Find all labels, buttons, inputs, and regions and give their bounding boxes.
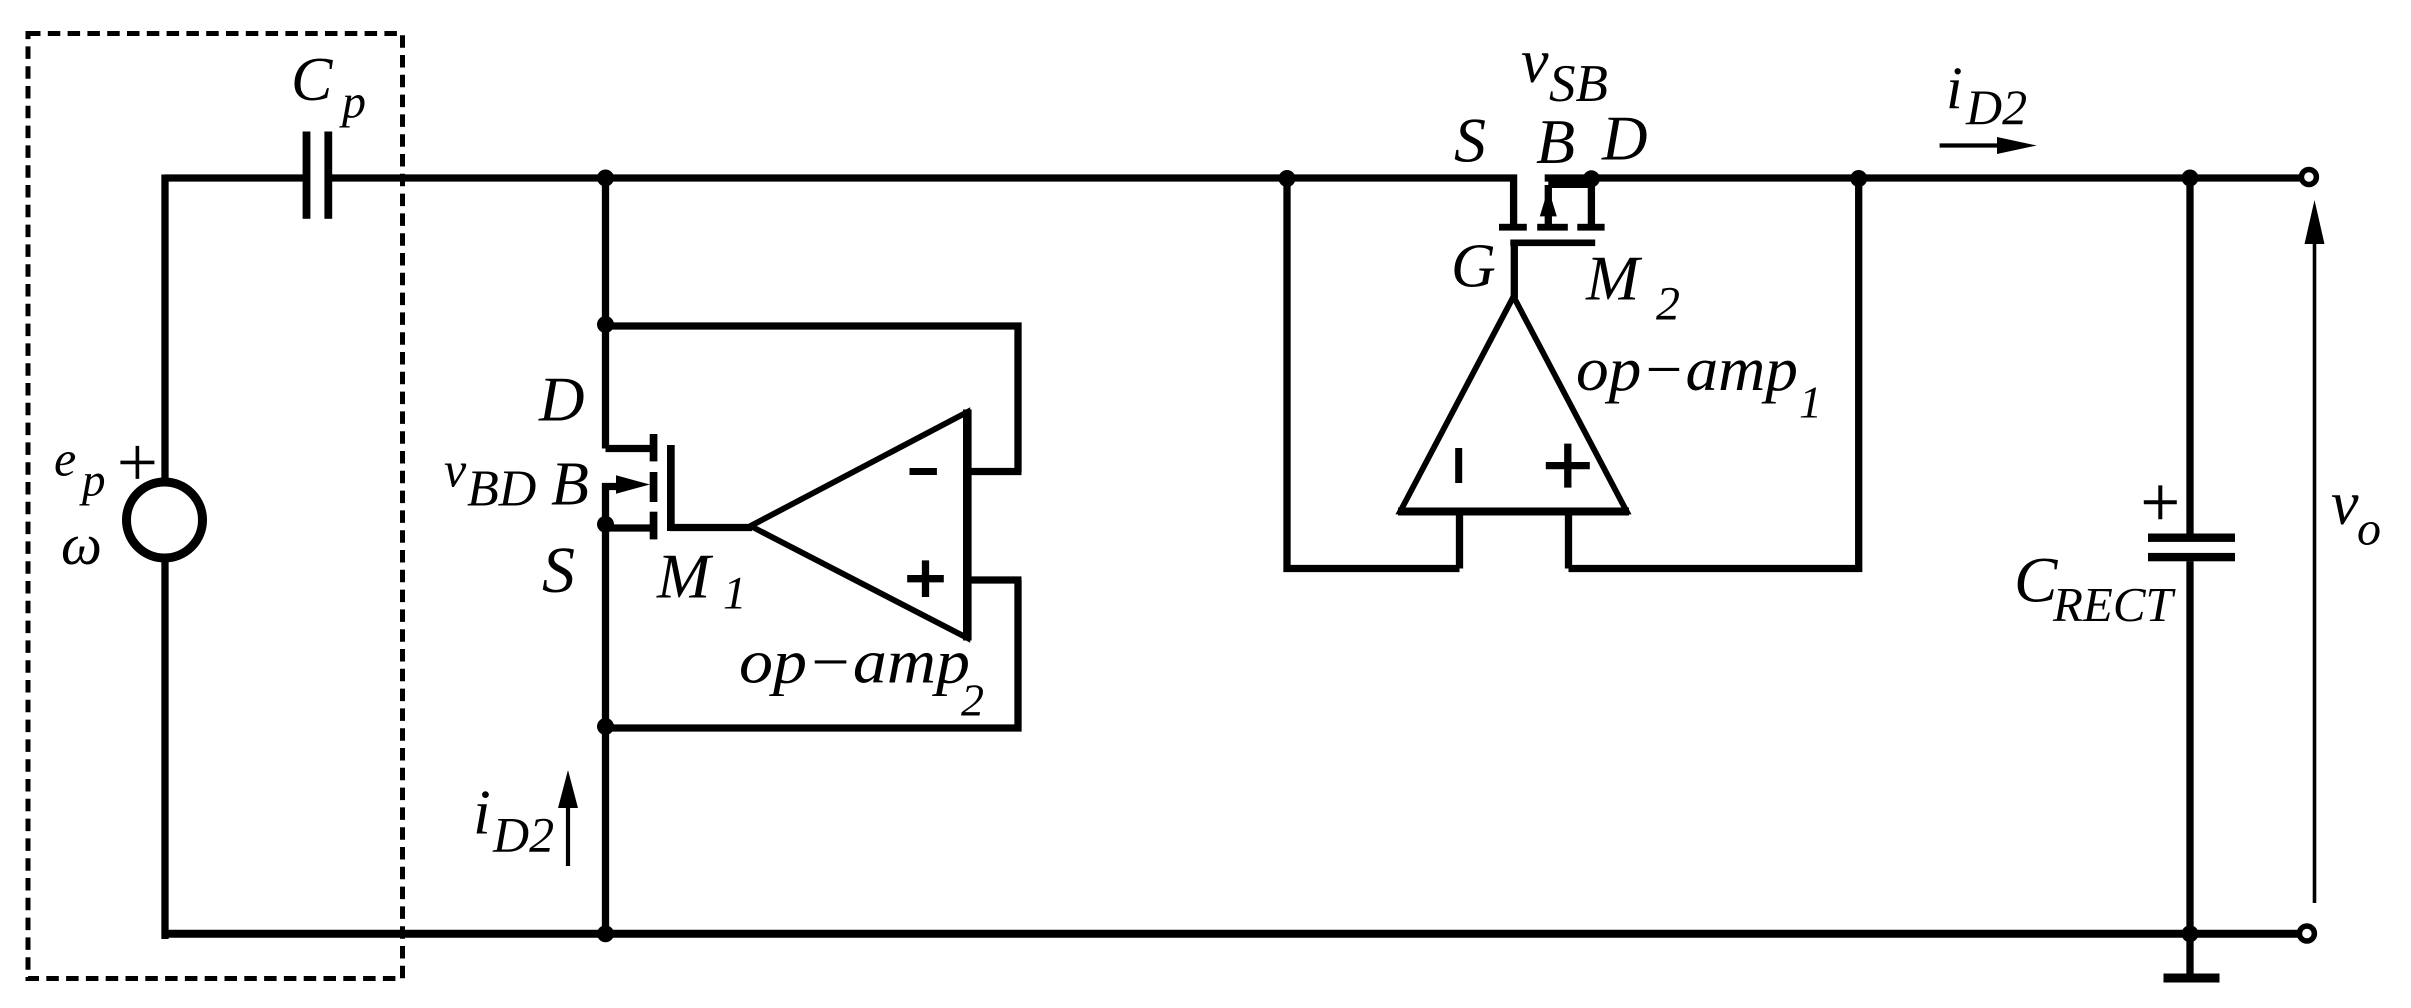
svg-text:i: i (473, 777, 491, 848)
wire U1 right feedback (drain side) (1569, 175, 1859, 569)
transistor M2 bulk contact bar (1537, 224, 1568, 231)
wire M1 rail upper (top rail to D lead) (602, 178, 609, 449)
svg-text:SB: SB (1549, 55, 1608, 113)
svg-text:D2: D2 (492, 807, 554, 863)
svg-text:D: D (1601, 104, 1648, 174)
transistor M1 bulk lead (602, 483, 622, 490)
op-amp U2 minus sign (910, 468, 937, 475)
wire U2 bottom feedback (source to plus) (606, 580, 1019, 728)
transistor M1 bulk arrow (616, 475, 650, 493)
junction dot M1 bottom rail (597, 925, 614, 942)
junction dot U1 left rail (1279, 170, 1296, 187)
wire U1 left feedback (source side) (1287, 175, 1460, 569)
junction dot M1 B-S tie (597, 516, 614, 533)
transistor M2 drain lead (1588, 178, 1595, 224)
wire U1 minus input stub (1456, 513, 1463, 569)
source ep circle (127, 482, 203, 558)
op-amp U2 base line (963, 410, 972, 641)
terminal bottom right (2299, 926, 2314, 941)
wire CRECT branch upper (2186, 178, 2193, 534)
current arrow iD2 (bottom, pointing up) (566, 806, 570, 866)
svg-text:1: 1 (723, 567, 747, 619)
svg-text:D2: D2 (1965, 79, 2027, 135)
wire U2 minus input stub (969, 468, 1022, 475)
capacitor CRECT top plate (2148, 534, 2235, 542)
svg-text:BD: BD (467, 461, 536, 518)
transistor M2 bulk arrow (1540, 189, 1557, 217)
transistor M1 bulk contact bar (650, 472, 658, 502)
transistor M1 drain contact bar (650, 434, 658, 461)
transistor M1 drain lead (606, 445, 651, 452)
current arrow iD2 (top right) (1940, 143, 2000, 147)
transistor M2 drain contact bar (1577, 224, 1604, 231)
wire ep bottom vertical (161, 562, 168, 939)
wire top rail left (ep corner to Cp) (165, 174, 303, 181)
ground bar (2164, 974, 2220, 983)
CRECT plus sign (2144, 485, 2177, 519)
wire U1 plus input stub (1565, 513, 1572, 569)
dashed box (piezo source boundary) (28, 34, 403, 979)
op-amp U2 plus sign (907, 560, 944, 597)
svg-text:1: 1 (1799, 377, 1822, 428)
transistor M2 source contact bar (1499, 224, 1527, 231)
svg-text:v: v (444, 441, 467, 497)
svg-text:i: i (1946, 55, 1963, 121)
svg-text:RECT: RECT (2052, 577, 2177, 632)
transistor M2 gate bar (1510, 240, 1595, 247)
svg-text:e: e (54, 430, 76, 486)
transistor M2 gate lead (1511, 246, 1518, 298)
junction dot M1 top feedback (597, 316, 614, 333)
transistor M1 gate bar (667, 445, 675, 531)
junction dot bottom rail at CRECT (2182, 925, 2199, 942)
svg-text:M: M (656, 541, 714, 612)
svg-text:S: S (1454, 104, 1486, 175)
capacitor Cp left plate (303, 132, 311, 219)
svg-text:B: B (551, 450, 589, 518)
node A: junction dot top of M1 rail (597, 170, 614, 187)
transistor M1 source lead (602, 524, 650, 531)
wire top rail (M2 B corner to right terminal) (1545, 174, 2300, 181)
ep plus sign (120, 446, 154, 479)
svg-text:S: S (542, 534, 575, 607)
op-amp U1 plus sign (1546, 444, 1590, 488)
transistor M1 gate lead to op-amp2 output (670, 524, 752, 531)
svg-text:D: D (538, 365, 585, 435)
svg-text:G: G (1451, 233, 1496, 301)
capacitor Cp right plate (324, 132, 332, 219)
terminal top right (2301, 170, 2316, 185)
transistor M1 source contact bar (650, 512, 658, 540)
svg-text:op−amp: op−amp (1576, 336, 1798, 404)
capacitor CRECT bottom plate (2148, 553, 2235, 561)
wire bottom rail (162, 930, 2300, 938)
svg-text:op−amp: op−amp (739, 629, 970, 697)
wire U2 plus input stub (969, 576, 1022, 583)
wire M1 rail lower (B lead to bottom rail) (602, 483, 609, 935)
wire ep branch vertical (161, 175, 168, 479)
svg-text:2: 2 (1656, 277, 1680, 330)
svg-text:2: 2 (961, 674, 984, 725)
svg-text:o: o (2357, 502, 2381, 555)
ground stub (2186, 935, 2193, 974)
svg-text:v: v (1521, 28, 1549, 96)
svg-text:C: C (2014, 545, 2058, 617)
wire U2 top feedback (drain to minus) (606, 326, 1019, 472)
transistor M2 bulk-drain connector (1548, 179, 1591, 188)
svg-text:B: B (1536, 106, 1575, 177)
vo measurement arrow (2313, 243, 2317, 903)
junction dot M1 bottom feedback (597, 718, 614, 735)
svg-text:p: p (79, 455, 106, 507)
junction dot M2 drain (1583, 170, 1600, 187)
transistor M2 bulk lead (1545, 185, 1552, 224)
transistor M2 source lead (1510, 175, 1517, 225)
op-amp U1 base line (1398, 508, 1629, 516)
svg-text:p: p (339, 76, 366, 129)
wire top rail (Cp to M2 source corner) (332, 174, 1517, 181)
junction dot U1 right rail (1850, 170, 1867, 187)
svg-text:v: v (2331, 470, 2359, 538)
op-amp U1 triangle (points up) (1400, 297, 1627, 512)
junction dot top of CRECT branch (2182, 170, 2199, 187)
svg-text:C: C (291, 46, 333, 114)
svg-text:M: M (1585, 243, 1643, 314)
svg-text:ω: ω (61, 512, 102, 577)
op-amp U2 triangle (points left) (751, 412, 968, 638)
op-amp U1 minus sign (rotated bar) (1455, 448, 1462, 483)
wire CRECT branch lower (2186, 561, 2193, 939)
